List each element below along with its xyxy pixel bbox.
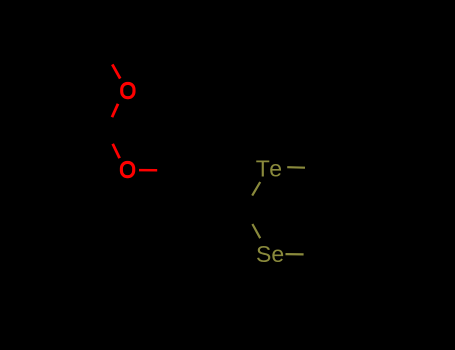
svg-text:Te: Te <box>256 155 284 181</box>
node O1 ring oxygen <box>122 83 134 97</box>
svg-text:Se: Se <box>256 241 284 267</box>
node O2 ether oxygen <box>121 162 133 176</box>
wire bond Te-phenyl olive half <box>287 166 305 169</box>
wire bond O2-CH2 red half <box>139 169 157 172</box>
wire bond C2-O2 red half <box>113 144 120 158</box>
wire bond C6-O1 red half <box>112 64 120 78</box>
wire bond Se-phenyl olive half <box>286 253 304 256</box>
wire bond Te-CH olive half <box>252 182 260 196</box>
wire bond Se-CH olive half <box>252 224 260 238</box>
wire bond O1-C2 red half <box>112 104 118 117</box>
